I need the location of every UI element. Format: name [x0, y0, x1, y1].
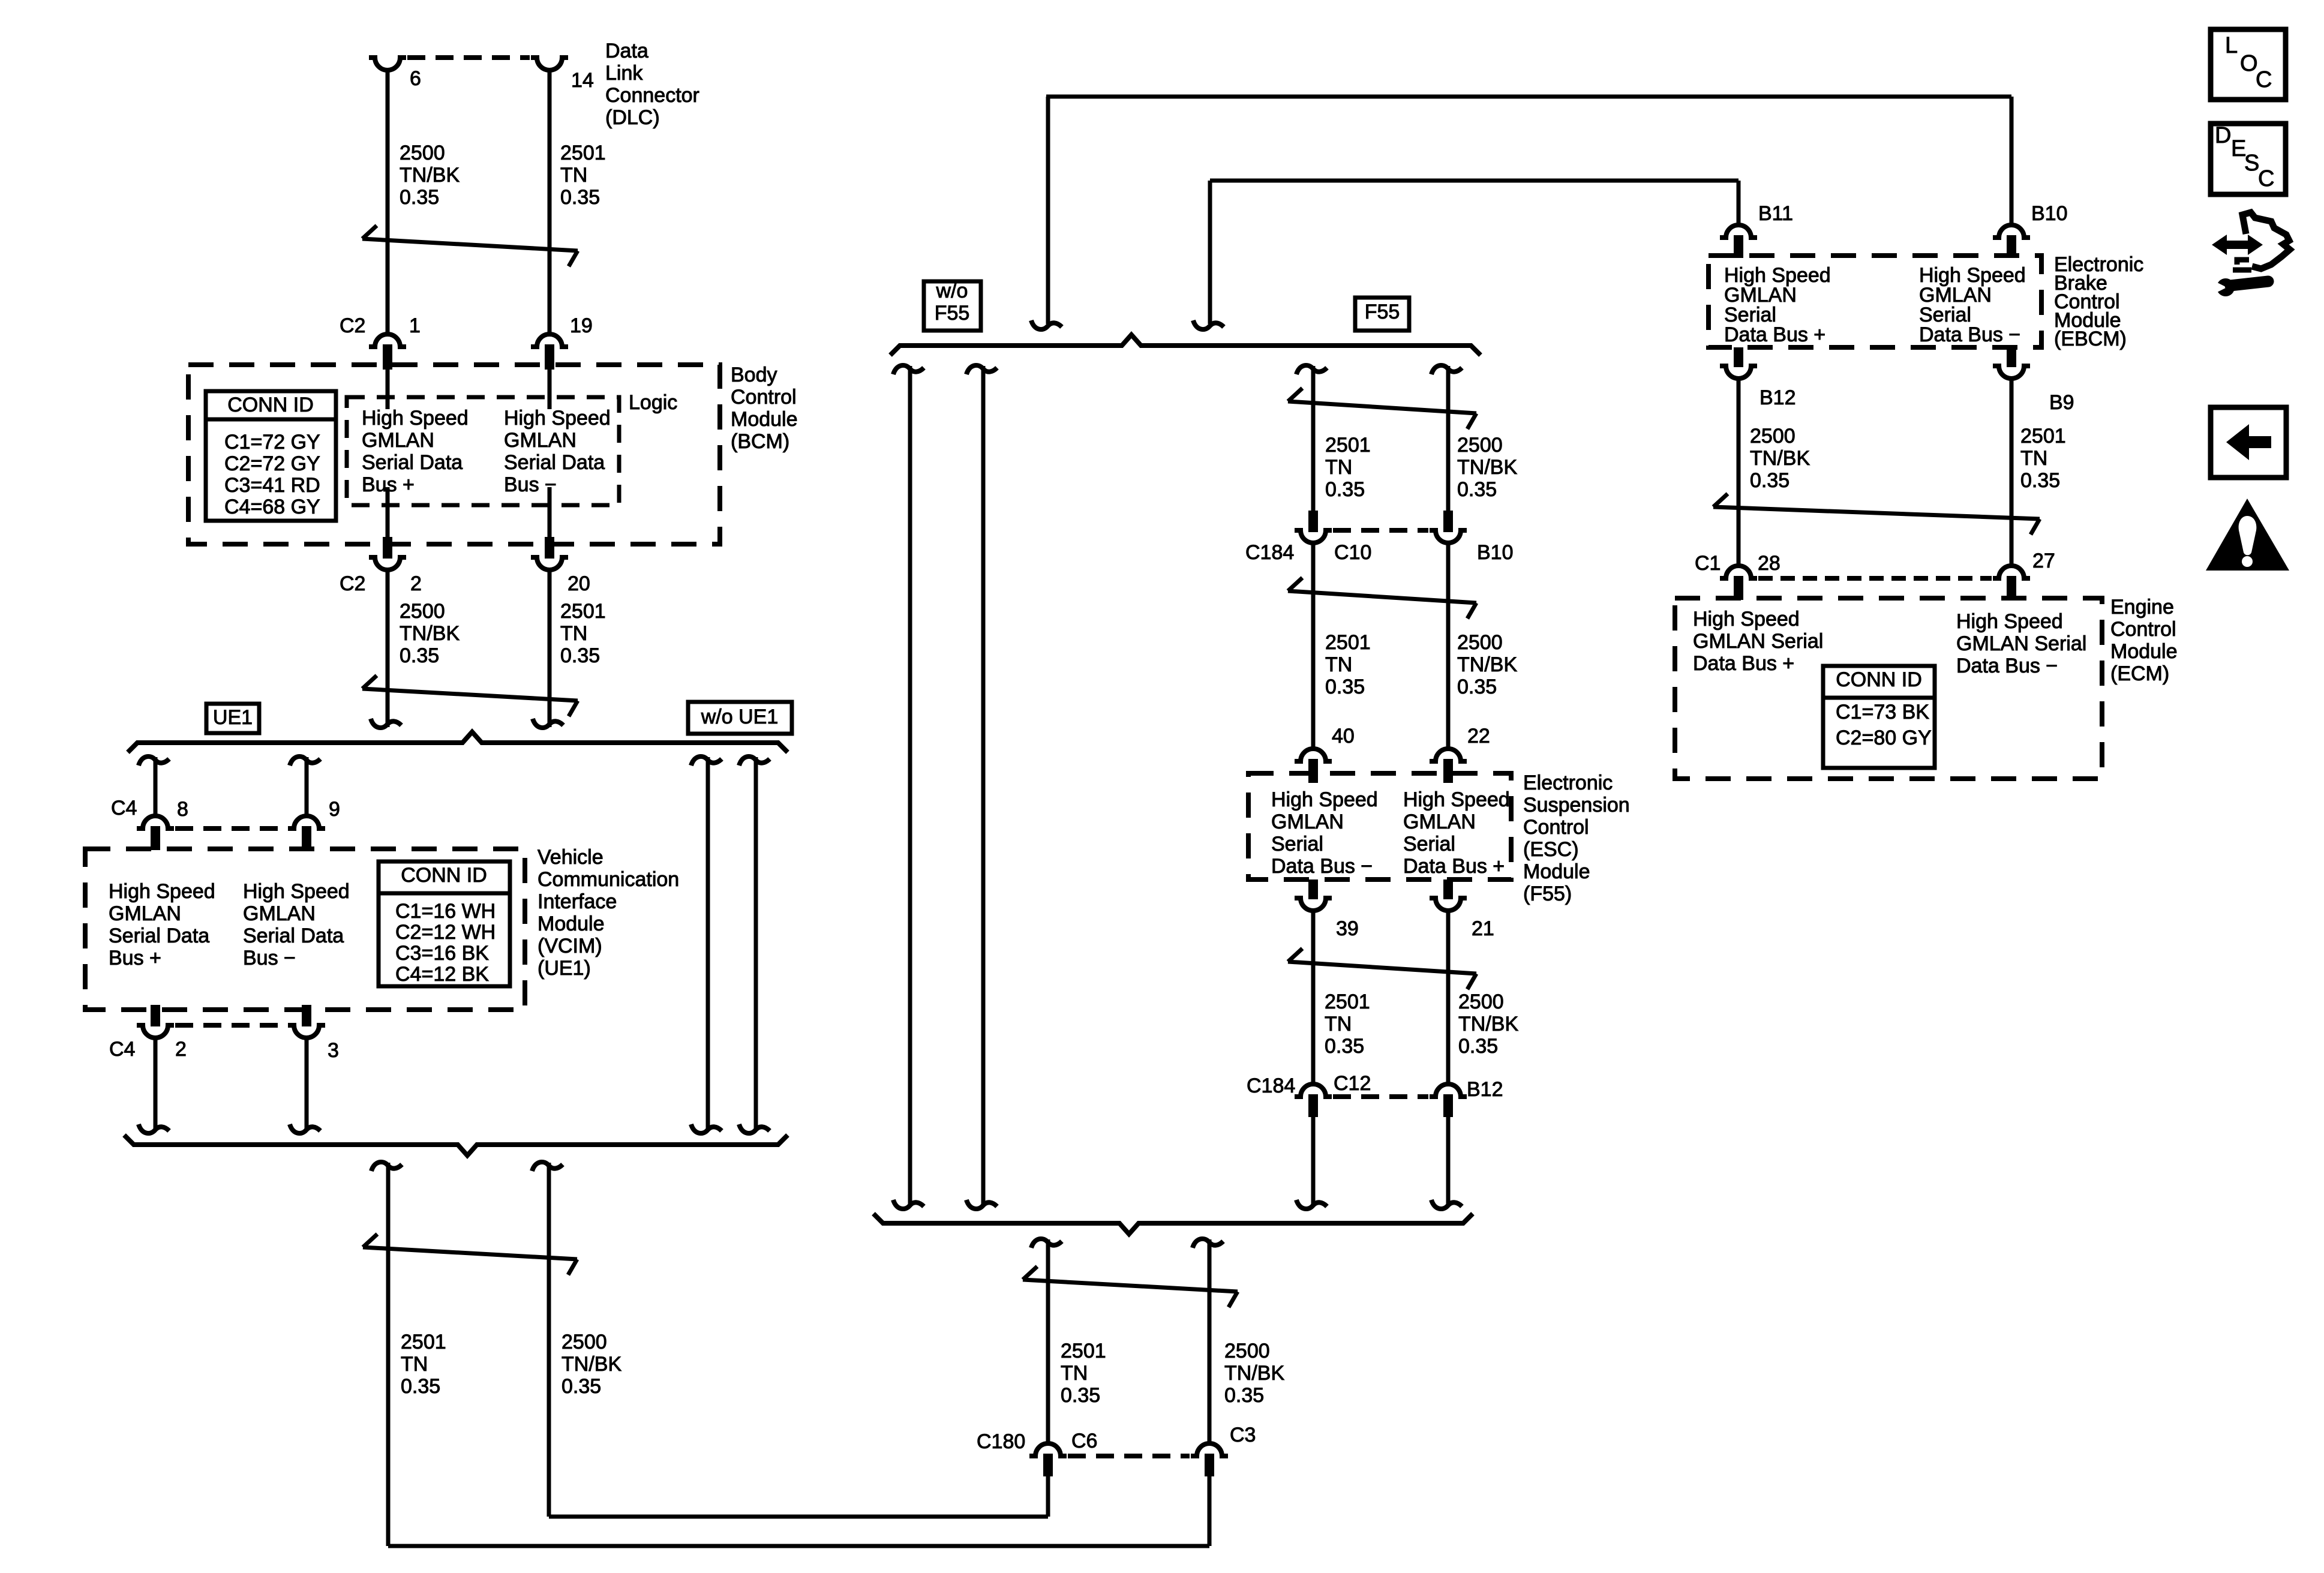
svg-text:2501: 2501	[1325, 631, 1371, 654]
svg-text:2501: 2501	[401, 1331, 446, 1353]
svg-text:High Speed: High Speed	[504, 407, 611, 430]
wire to VCIM pin 8	[139, 757, 169, 817]
wire top horizontal to EBCM B10	[1046, 97, 2011, 324]
wire end hook above F55 brace left	[1031, 320, 1062, 329]
wire F55 branch left upper	[1296, 365, 1327, 511]
label ESC High Speed GMLAN Serial Data Bus -	[1271, 788, 1378, 878]
svg-text:C: C	[2256, 67, 2272, 92]
label pin 3	[328, 1039, 339, 1062]
svg-text:C12: C12	[1334, 1072, 1371, 1095]
svg-text:CONN ID: CONN ID	[227, 394, 314, 416]
svg-text:D: D	[2215, 123, 2231, 148]
svg-text:Vehicle: Vehicle	[538, 846, 603, 869]
label connector C4 bottom	[109, 1038, 135, 1061]
label wire 2500 TN/BK 0.35 below BCM	[400, 600, 460, 667]
wire 2500 TN/BK DLC-6 to BCM-1	[386, 69, 390, 335]
svg-text:w/o UE1: w/o UE1	[701, 706, 779, 728]
svg-text:High Speed: High Speed	[243, 880, 350, 903]
label B11	[1758, 202, 1793, 225]
svg-text:0.35: 0.35	[2020, 469, 2060, 492]
wire second horizontal to EBCM B11	[1210, 181, 1739, 324]
connector ECM pin 27	[1993, 566, 2030, 600]
wire bypass w/o F55 left	[893, 365, 924, 1209]
connector C184/C12-B12 tie line	[1333, 1094, 1428, 1099]
svg-text:0.35: 0.35	[560, 644, 600, 667]
svg-text:C1: C1	[1695, 552, 1721, 575]
svg-text:0.35: 0.35	[1457, 676, 1497, 698]
svg-text:Serial Data: Serial Data	[504, 451, 605, 474]
svg-text:High Speed: High Speed	[362, 407, 469, 430]
label wire 2501 TN 0.35 F55-3	[1325, 990, 1370, 1058]
label wire 2500 TN/BK 0.35 EBCM	[1750, 425, 1810, 492]
label EBCM High Speed GMLAN Serial Data Bus +	[1724, 264, 1831, 346]
brace splice F55 options	[890, 335, 1481, 355]
label pin 21	[1472, 917, 1494, 940]
svg-text:Communication: Communication	[538, 868, 679, 891]
svg-text:Body: Body	[731, 364, 777, 386]
svg-text:0.35: 0.35	[401, 1375, 440, 1398]
svg-text:0.35: 0.35	[1750, 469, 1789, 492]
connector BCM pin 1	[369, 334, 406, 370]
svg-text:TN: TN	[1325, 456, 1352, 479]
svg-text:TN/BK: TN/BK	[400, 164, 460, 187]
icon DESC box	[2211, 123, 2286, 194]
svg-text:Serial: Serial	[1271, 833, 1323, 855]
label wire 2501 TN 0.35 lower left	[401, 1331, 446, 1398]
label connector C2 at BCM top	[340, 314, 365, 337]
connector ESC pin 39	[1295, 879, 1332, 911]
svg-text:Data Bus −: Data Bus −	[1956, 655, 2058, 677]
twisted pair symbol F55 mid	[1288, 578, 1476, 619]
svg-text:2500: 2500	[1750, 425, 1795, 448]
wire C3 stub to bottom run	[1208, 1474, 1212, 1546]
label pin 28	[1758, 552, 1780, 575]
svg-text:Data Bus +: Data Bus +	[1403, 855, 1505, 878]
svg-text:(VCIM): (VCIM)	[538, 935, 602, 957]
connector VCIM pin 8	[137, 816, 174, 850]
svg-text:2500: 2500	[1458, 990, 1504, 1013]
svg-text:Module: Module	[1523, 860, 1590, 883]
svg-text:High Speed: High Speed	[1956, 610, 2063, 633]
svg-text:GMLAN: GMLAN	[504, 429, 577, 452]
connector EBCM B9	[1993, 347, 2030, 379]
svg-text:C6: C6	[1071, 1430, 1097, 1452]
svg-text:28: 28	[1758, 552, 1780, 575]
svg-text:Control: Control	[731, 386, 797, 409]
label B12 at EBCM	[1759, 386, 1796, 409]
wire to VCIM pin 9	[290, 757, 320, 817]
label C12	[1334, 1072, 1371, 1095]
label ECM High Speed GMLAN Serial Data Bus +	[1693, 608, 1823, 675]
connector C180 C6	[1029, 1443, 1067, 1476]
label B12 row2	[1467, 1078, 1503, 1101]
wire C6 stub to bottom run	[1046, 1474, 1050, 1517]
svg-text:(BCM): (BCM)	[731, 430, 789, 453]
twisted pair symbol F55 lower	[1288, 948, 1476, 989]
label pin 9	[329, 798, 340, 821]
svg-text:(DLC): (DLC)	[605, 106, 660, 129]
svg-text:Logic: Logic	[629, 391, 677, 414]
svg-text:2: 2	[175, 1038, 187, 1061]
label Logic	[629, 391, 677, 414]
svg-text:C2=80 GY: C2=80 GY	[1836, 727, 1932, 749]
svg-text:B10: B10	[1477, 541, 1514, 564]
svg-text:TN/BK: TN/BK	[1750, 447, 1810, 470]
connector C3 inline	[1191, 1443, 1228, 1476]
connector C4 upper tie line	[175, 826, 287, 831]
label wire 2500 TN/BK 0.35 F55-2	[1457, 631, 1517, 698]
svg-text:Suspension: Suspension	[1523, 794, 1630, 816]
connector C184/C10-B10 tie line	[1333, 528, 1428, 533]
svg-text:Connector: Connector	[605, 84, 699, 107]
label C3	[1230, 1424, 1256, 1446]
wire VCIM pin 3 down	[290, 1037, 320, 1133]
svg-text:TN: TN	[401, 1353, 428, 1376]
twisted pair symbol F55 upper	[1288, 388, 1476, 429]
svg-text:Serial: Serial	[1403, 833, 1455, 855]
svg-text:C2: C2	[340, 314, 365, 337]
svg-text:TN: TN	[1325, 1013, 1352, 1035]
brace splice UE1 options	[128, 732, 788, 752]
label Body Control Module (BCM)	[731, 364, 798, 453]
svg-text:(ECM): (ECM)	[2110, 662, 2169, 685]
svg-text:C4=68 GY: C4=68 GY	[224, 496, 320, 518]
module box BCM	[188, 365, 720, 544]
label B9	[2049, 391, 2074, 414]
label wire 2500 TN/BK 0.35 lower left	[562, 1331, 621, 1398]
svg-text:GMLAN: GMLAN	[243, 902, 316, 925]
svg-text:2501: 2501	[1325, 990, 1370, 1013]
wire end hook above F55 brace right	[1193, 320, 1224, 329]
wire F55 right mid	[1446, 542, 1451, 749]
connector B10 inline	[1430, 511, 1467, 543]
label pin 20	[568, 572, 590, 595]
wire BCM logic lower stub pin2	[386, 487, 390, 539]
svg-text:C2=72 GY: C2=72 GY	[224, 452, 320, 475]
svg-text:B10: B10	[2031, 202, 2068, 225]
icon warning triangle	[2206, 499, 2289, 571]
svg-text:0.35: 0.35	[1325, 478, 1365, 501]
svg-text:2501: 2501	[560, 142, 606, 164]
svg-text:TN/BK: TN/BK	[1457, 653, 1517, 676]
svg-text:C180: C180	[977, 1430, 1025, 1453]
svg-text:C184: C184	[1247, 1074, 1295, 1097]
wire 2501 TN left lower	[371, 1162, 402, 1546]
svg-text:0.35: 0.35	[400, 644, 439, 667]
option box w/o F55	[924, 280, 981, 331]
svg-text:14: 14	[571, 69, 594, 92]
svg-text:Bus +: Bus +	[109, 947, 161, 969]
svg-text:C: C	[2258, 166, 2274, 191]
svg-text:L: L	[2225, 33, 2238, 58]
svg-text:TN: TN	[2020, 447, 2047, 470]
wire to C180 C6	[1031, 1239, 1062, 1445]
label wire 2500 TN/BK 0.35 F55-1	[1457, 434, 1517, 501]
connector EBCM B10	[1993, 225, 2030, 258]
connector BCM pin 2	[369, 537, 406, 570]
connector ESC pin 40	[1295, 749, 1332, 783]
svg-text:2501: 2501	[2020, 425, 2066, 448]
svg-text:Module: Module	[2110, 640, 2178, 663]
twisted pair symbol DLC-BCM	[362, 226, 578, 266]
svg-text:2500: 2500	[1224, 1340, 1270, 1362]
svg-text:F55: F55	[1365, 301, 1400, 323]
svg-text:Data Bus +: Data Bus +	[1724, 323, 1825, 346]
wire bottom run to C3	[388, 1475, 1209, 1546]
wire 2501 TN BCM-20 down	[533, 569, 563, 728]
svg-text:Serial Data: Serial Data	[243, 924, 344, 947]
label BCM High Speed GMLAN Serial Data Bus -	[504, 407, 611, 496]
option box UE1	[206, 704, 259, 733]
label Vehicle Communication Interface Module (VCIM) (UE1)	[538, 846, 679, 980]
twisted pair symbol BCM-splice	[362, 676, 578, 716]
svg-text:Module: Module	[731, 408, 798, 431]
svg-text:TN/BK: TN/BK	[400, 622, 460, 645]
label pin 1	[409, 314, 421, 337]
svg-text:C3=41 RD: C3=41 RD	[224, 474, 320, 497]
svg-text:TN: TN	[1061, 1362, 1088, 1385]
svg-text:C1=72 GY: C1=72 GY	[224, 431, 320, 454]
svg-text:2501: 2501	[1061, 1340, 1106, 1362]
label pin 2	[410, 572, 422, 595]
icon LOC box	[2211, 29, 2286, 100]
svg-text:Link: Link	[605, 62, 643, 85]
svg-text:0.35: 0.35	[560, 186, 600, 209]
label wire 2501 TN 0.35 EBCM	[2020, 425, 2066, 492]
brace splice rejoin left	[124, 1135, 788, 1155]
twisted pair symbol left lower	[363, 1234, 577, 1275]
svg-text:0.35: 0.35	[1325, 676, 1365, 698]
svg-text:TN/BK: TN/BK	[1457, 456, 1517, 479]
label pin 22	[1467, 725, 1490, 748]
module box ECM	[1675, 598, 2102, 779]
svg-text:8: 8	[177, 798, 188, 821]
svg-text:B9: B9	[2049, 391, 2074, 414]
svg-text:Electronic: Electronic	[1523, 772, 1613, 794]
svg-text:GMLAN: GMLAN	[1403, 810, 1476, 833]
svg-text:Serial Data: Serial Data	[109, 924, 209, 947]
svg-text:1: 1	[409, 314, 421, 337]
svg-text:3: 3	[328, 1039, 339, 1062]
wire F55 left to brace	[1296, 1117, 1327, 1209]
wire 2500 TN/BK BCM-2 down	[371, 569, 401, 728]
connector VCIM pin 2	[137, 1005, 174, 1038]
option box F55	[1355, 298, 1409, 331]
svg-text:CONN ID: CONN ID	[401, 864, 487, 887]
svg-text:Data Bus −: Data Bus −	[1919, 323, 2020, 346]
label wire 2500 TN/BK 0.35 upper	[400, 142, 460, 209]
twisted pair symbol EBCM-ECM	[1713, 494, 2040, 535]
label VCIM High Speed GMLAN Serial Data Bus -	[243, 880, 350, 969]
svg-text:40: 40	[1332, 725, 1355, 748]
option box w/o UE1	[688, 702, 792, 734]
label pin 39	[1336, 917, 1359, 940]
svg-text:2501: 2501	[560, 600, 606, 623]
wire BCM logic stub pin1	[386, 370, 390, 409]
wire BCM logic stub pin19	[548, 370, 552, 409]
wire F55 left mid	[1311, 542, 1316, 749]
label pin 19	[570, 314, 593, 337]
svg-text:20: 20	[568, 572, 590, 595]
label wire 2501 TN 0.35 below BCM	[560, 600, 606, 667]
svg-text:F55: F55	[935, 302, 970, 325]
svg-text:0.35: 0.35	[400, 186, 439, 209]
label wire 2501 TN 0.35 F55-2	[1325, 631, 1371, 698]
svg-text:C1=16 WH: C1=16 WH	[395, 900, 496, 923]
svg-text:27: 27	[2032, 550, 2055, 572]
svg-text:19: 19	[570, 314, 593, 337]
connector C184 C10	[1295, 511, 1332, 543]
label Engine Control Module (ECM)	[2110, 596, 2178, 685]
module box ESC	[1248, 773, 1511, 879]
label B10 row1	[1477, 541, 1514, 564]
svg-text:C2: C2	[340, 572, 365, 595]
svg-text:0.35: 0.35	[1458, 1035, 1498, 1058]
connector C1 tie line	[1758, 576, 1992, 581]
svg-text:2500: 2500	[400, 142, 445, 164]
svg-text:(EBCM): (EBCM)	[2054, 328, 2127, 350]
wire bypass w/o UE1 left	[691, 757, 722, 1133]
wire 2500 TN/BK left lower	[532, 1162, 563, 1517]
svg-text:C3=16 BK: C3=16 BK	[395, 942, 489, 965]
svg-text:C10: C10	[1334, 541, 1371, 564]
module box VCIM	[85, 849, 525, 1010]
label Electronic Brake Control Module (EBCM)	[2054, 253, 2143, 350]
label wire 2500 TN/BK 0.35 F55-3	[1458, 990, 1518, 1058]
label VCIM High Speed GMLAN Serial Data Bus +	[109, 880, 215, 969]
icon connector tools	[2212, 212, 2290, 296]
svg-text:GMLAN: GMLAN	[362, 429, 434, 452]
wire F55 left lower	[1311, 909, 1316, 1084]
svg-text:(ESC): (ESC)	[1523, 838, 1579, 861]
label pin 2	[175, 1038, 187, 1061]
label Data Link Connector (DLC)	[605, 40, 699, 129]
svg-text:9: 9	[329, 798, 340, 821]
wire bypass w/o F55 right	[966, 365, 997, 1209]
label connector C1 ECM	[1695, 552, 1721, 575]
svg-text:22: 22	[1467, 725, 1490, 748]
wire bypass w/o UE1 right	[739, 757, 770, 1133]
connector DLC pin 14 cavity	[531, 58, 594, 92]
connector C180/C6-C3 tie line	[1068, 1454, 1190, 1458]
table CONN ID BCM	[206, 391, 336, 521]
label C10	[1334, 541, 1371, 564]
twisted pair symbol bottom middle	[1023, 1266, 1238, 1307]
label pin 27	[2032, 550, 2055, 572]
wire bottom run to C180 C6	[549, 1475, 1048, 1517]
label B10 at EBCM	[2031, 202, 2068, 225]
svg-text:2500: 2500	[1457, 631, 1503, 654]
svg-text:Control: Control	[1523, 816, 1589, 839]
wire 2501 TN DLC-14 to BCM-19	[548, 69, 552, 335]
connector ESC pin 22	[1430, 749, 1467, 783]
label Electronic Suspension Control (ESC) Module (F55)	[1523, 772, 1630, 905]
connector DLC tie line	[407, 55, 530, 60]
label C184 row2	[1247, 1074, 1295, 1097]
svg-text:6: 6	[410, 67, 421, 90]
svg-text:Engine: Engine	[2110, 596, 2174, 619]
connector BCM pin 20	[531, 537, 568, 570]
svg-text:Module: Module	[538, 912, 605, 935]
svg-text:39: 39	[1336, 917, 1359, 940]
icon back arrow box	[2211, 407, 2286, 478]
wire BCM logic lower stub pin20	[548, 487, 552, 539]
svg-text:C3: C3	[1230, 1424, 1256, 1446]
svg-text:UE1: UE1	[213, 706, 253, 729]
svg-text:S: S	[2244, 151, 2259, 176]
svg-text:21: 21	[1472, 917, 1494, 940]
wire F55 branch right upper	[1431, 365, 1462, 511]
svg-text:TN: TN	[1325, 653, 1352, 676]
label wire 2501 TN 0.35 bottom	[1061, 1340, 1106, 1407]
svg-text:GMLAN: GMLAN	[109, 902, 181, 925]
svg-text:GMLAN Serial: GMLAN Serial	[1693, 630, 1823, 653]
svg-text:w/o: w/o	[936, 280, 968, 302]
svg-text:TN: TN	[560, 622, 587, 645]
wire 2501 TN EBCM to ECM	[2010, 377, 2014, 567]
svg-text:C1=73 BK: C1=73 BK	[1836, 701, 1929, 724]
label BCM High Speed GMLAN Serial Data Bus +	[362, 407, 469, 496]
svg-text:High Speed: High Speed	[1271, 788, 1378, 811]
svg-text:B12: B12	[1759, 386, 1796, 409]
connector B12 inline	[1430, 1084, 1467, 1117]
connector ECM pin 28	[1720, 566, 1757, 600]
svg-text:TN/BK: TN/BK	[1458, 1013, 1518, 1035]
svg-text:TN/BK: TN/BK	[1224, 1362, 1284, 1385]
connector VCIM pin 3	[288, 1005, 325, 1038]
svg-text:TN: TN	[560, 164, 587, 187]
svg-text:Data Bus −: Data Bus −	[1271, 855, 1373, 878]
wire F55 right to brace	[1431, 1117, 1462, 1209]
module box EBCM	[1709, 256, 2041, 347]
svg-text:2500: 2500	[1457, 434, 1503, 457]
connector BCM pin 19	[531, 334, 568, 370]
svg-text:Bus −: Bus −	[243, 947, 296, 969]
svg-text:B11: B11	[1758, 202, 1793, 225]
svg-text:High Speed: High Speed	[109, 880, 215, 903]
svg-text:GMLAN: GMLAN	[1271, 810, 1344, 833]
svg-text:(F55): (F55)	[1523, 882, 1572, 905]
svg-text:0.35: 0.35	[562, 1375, 601, 1398]
svg-text:2500: 2500	[400, 600, 445, 623]
svg-text:C184: C184	[1245, 541, 1294, 564]
connector C184 C12	[1295, 1084, 1332, 1117]
svg-text:C2=12 WH: C2=12 WH	[395, 921, 496, 944]
connector EBCM B11	[1720, 225, 1757, 258]
label EBCM High Speed GMLAN Serial Data Bus -	[1919, 264, 2026, 346]
svg-text:0.35: 0.35	[1061, 1384, 1100, 1407]
svg-text:C4: C4	[111, 797, 137, 819]
svg-text:C4=12 BK: C4=12 BK	[395, 963, 489, 986]
label pin 40	[1332, 725, 1355, 748]
label wire 2501 TN 0.35 upper	[560, 142, 606, 209]
svg-text:2: 2	[410, 572, 422, 595]
svg-text:0.35: 0.35	[1325, 1035, 1364, 1058]
svg-text:GMLAN Serial: GMLAN Serial	[1956, 632, 2086, 655]
label C180	[977, 1430, 1025, 1453]
svg-text:Control: Control	[2110, 618, 2176, 641]
label wire 2501 TN 0.35 F55-1	[1325, 434, 1371, 501]
label C184 row1	[1245, 541, 1294, 564]
connector ESC pin 21	[1430, 879, 1467, 911]
svg-text:High Speed: High Speed	[1693, 608, 1800, 631]
label ECM High Speed GMLAN Serial Data Bus -	[1956, 610, 2086, 677]
table CONN ID ECM	[1823, 666, 1935, 768]
logic box BCM	[347, 397, 619, 505]
svg-text:Interface: Interface	[538, 890, 617, 913]
wire VCIM pin 2 down	[139, 1037, 169, 1133]
svg-text:CONN ID: CONN ID	[1836, 668, 1922, 691]
